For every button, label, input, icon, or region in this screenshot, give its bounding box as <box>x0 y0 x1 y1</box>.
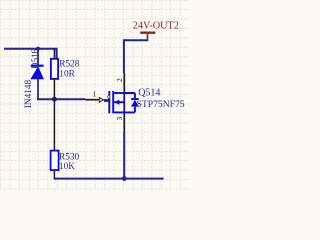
svg-text:STP75NF75: STP75NF75 <box>137 99 185 110</box>
svg-text:24V-OUT2: 24V-OUT2 <box>133 21 179 32</box>
svg-text:10K: 10K <box>59 162 75 172</box>
svg-text:Q514: Q514 <box>138 87 160 98</box>
svg-text:10R: 10R <box>59 70 75 80</box>
svg-text:IN4148: IN4148 <box>24 79 34 108</box>
svg-text:3: 3 <box>116 116 124 120</box>
svg-text:D516: D516 <box>30 49 40 69</box>
svg-text:1: 1 <box>93 90 97 99</box>
svg-text:R530: R530 <box>59 152 79 162</box>
svg-text:R528: R528 <box>59 60 79 70</box>
svg-text:2: 2 <box>116 78 124 82</box>
